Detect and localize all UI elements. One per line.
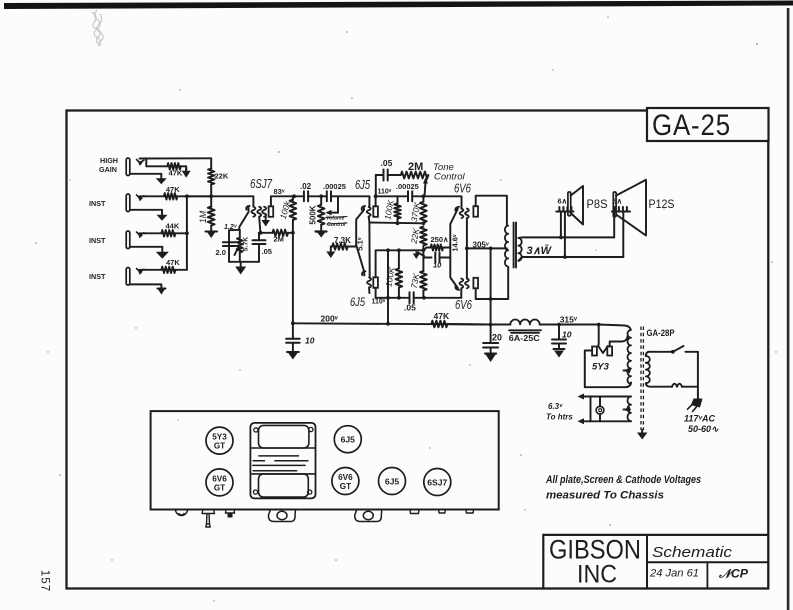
transformer OT core (514, 223, 516, 268)
chassis outline (151, 411, 499, 509)
label 6ohm P8S (558, 197, 568, 206)
svg-text:110ᵛ: 110ᵛ (372, 299, 386, 306)
pot 500K wiper (326, 196, 339, 215)
tube 5Y3 filament (598, 344, 608, 353)
svg-text:.05: .05 (262, 247, 272, 256)
pot 5.7K (237, 238, 243, 253)
tube 6V6a plate lead (476, 196, 507, 226)
label 44K J3 (166, 222, 180, 231)
page number 157 (39, 570, 51, 592)
arrow filament center tap (624, 407, 631, 413)
tube 6J5b plate (373, 277, 378, 288)
svg-text:47K: 47K (434, 311, 450, 321)
wire J1 sleeve (130, 173, 161, 175)
wire cap00025 lead (321, 195, 327, 197)
plate line upper (376, 195, 408, 197)
jack J3 (126, 231, 130, 249)
jack J4 tip contact (137, 269, 144, 275)
junction bus left (291, 321, 295, 325)
tube 6V6a screen lead (466, 218, 468, 248)
svg-text:.02: .02 (300, 182, 312, 191)
junction volume top (319, 194, 323, 198)
label INST 3 (89, 272, 106, 281)
choke 6A-25C (491, 319, 599, 324)
tube 6J5b plate lead top (376, 250, 424, 277)
label INST 1 (89, 199, 106, 208)
svg-text:14.6ᵛ: 14.6ᵛ (451, 234, 460, 252)
tube 6SJ7 cathode (239, 206, 249, 230)
label 200v (321, 314, 339, 324)
junction HV bus (489, 323, 493, 327)
label 3 ohm W (527, 245, 553, 257)
wire J1 tip to top rail (140, 157, 212, 159)
label 2.0 (216, 248, 226, 257)
tube 6J5a grid lead lower (368, 217, 371, 223)
wire J3 tip (140, 232, 162, 234)
tube 6V6a screen squiggle (465, 209, 469, 219)
wire J4 tip (140, 269, 162, 271)
label 6A-25C (509, 333, 540, 343)
tube 5Y3 plate left (592, 347, 597, 356)
junction plate crossing (489, 297, 493, 301)
transformer PT core (641, 327, 643, 431)
chassis clip 2 (439, 510, 446, 514)
wire node to 6V6b grid (460, 288, 462, 298)
wire plate node up (375, 175, 377, 196)
capacitor .00025 second (408, 191, 462, 201)
chassis transformer outline (250, 423, 315, 499)
label 2M screen (274, 235, 284, 244)
wire J1 47K branch (146, 160, 167, 167)
label Volume Control (326, 216, 347, 229)
tube 6SJ7 plate lead (271, 196, 294, 206)
svg-text:3∧W̄: 3∧W̄ (527, 245, 553, 257)
ground cathode network (235, 262, 246, 275)
svg-text:6V6: 6V6 (454, 182, 471, 196)
ground 10 first filter (287, 352, 299, 360)
label 100K first stage (278, 199, 293, 220)
capacitor 10 psu (552, 325, 566, 350)
wire screen dropper (490, 248, 492, 324)
svg-text:INC: INC (577, 561, 617, 589)
label 305v (473, 240, 489, 249)
svg-text:6J5: 6J5 (385, 477, 400, 487)
pot 5.7K wiper (235, 246, 240, 256)
arrow HV center tap (624, 368, 631, 374)
svg-text:6J5: 6J5 (350, 295, 365, 309)
wire 7.3K to cathode (348, 246, 357, 248)
chassis transformer laminations (253, 456, 308, 471)
svg-text:P12S: P12S (649, 199, 675, 211)
label 10 first filter (305, 336, 315, 346)
svg-text:6.3ᵛ: 6.3ᵛ (548, 402, 563, 411)
label 6.3v (548, 402, 563, 411)
svg-text:Schematic: Schematic (652, 545, 733, 561)
ground J2 (157, 210, 168, 221)
jack J2 tip contact (137, 195, 144, 201)
pilot lamp (596, 397, 604, 422)
ground 20 filter (485, 354, 496, 363)
transformer PT filament winding (628, 397, 631, 422)
label 6V6 lower (455, 298, 472, 312)
svg-text:44K: 44K (166, 222, 180, 231)
svg-text:6J5: 6J5 (341, 435, 356, 445)
resistor 47K J2 (164, 193, 178, 199)
pot 5.7K branch top (239, 230, 241, 238)
tube 6V6b cathode (450, 248, 459, 290)
jack J1 high gain (126, 158, 130, 176)
ground 7.3K (326, 247, 335, 259)
svg-text:47K: 47K (166, 258, 180, 267)
wire 315v to rectifier (597, 323, 601, 344)
capacitor 2.0 (223, 242, 236, 246)
label HIGH GAIN (99, 156, 118, 174)
wire HV winding top lead (599, 325, 631, 331)
tube 6J5a plate (373, 206, 378, 217)
junction divider node (422, 248, 426, 252)
switch power (646, 346, 698, 356)
transformer PT primary bottom lead (646, 383, 672, 387)
wire J2 tip (140, 195, 164, 197)
resistor 22K divider (420, 227, 427, 251)
label .05 tone (381, 158, 393, 168)
ground J1 (156, 174, 167, 185)
wire AC hot (697, 352, 699, 400)
svg-text:6A-25C: 6A-25C (509, 333, 540, 343)
svg-text:HIGH: HIGH (100, 156, 118, 165)
label 1M (198, 210, 208, 223)
Schematic text (652, 545, 733, 561)
resistor 250ohm (423, 245, 450, 251)
svg-text:157: 157 (39, 570, 51, 592)
svg-text:22K: 22K (215, 172, 229, 181)
chassis foot left (268, 510, 295, 522)
wire 100K bottom (292, 220, 294, 233)
label 100K lower inverter (383, 266, 396, 288)
svg-text:305ᵛ: 305ᵛ (473, 240, 489, 249)
capacitor .05 tone (376, 170, 401, 181)
label 14.6V (451, 234, 460, 252)
tube 6SJ7 plate (269, 206, 274, 217)
junction 370K bottom (422, 221, 426, 225)
resistor 370K (420, 196, 427, 223)
svg-text:83ᵛ: 83ᵛ (274, 187, 285, 196)
label .02 (300, 182, 312, 191)
svg-text:2M: 2M (408, 161, 423, 173)
wire 47K to ground (181, 166, 186, 171)
junction grid-feed lower (386, 296, 390, 300)
jack J1 tip contact (137, 160, 144, 166)
svg-text:GAIN: GAIN (99, 165, 117, 174)
label 22K (215, 172, 229, 181)
note line 1 (545, 474, 701, 486)
label 6SJ7 (250, 176, 273, 191)
ground 500K (316, 225, 327, 238)
pot 2M tone (401, 172, 429, 179)
tube 6J5a cathode (356, 206, 365, 245)
speaker P12S horn (616, 180, 646, 236)
svg-text:10: 10 (433, 261, 442, 270)
jack J2 (126, 194, 130, 212)
svg-text:6J5: 6J5 (355, 178, 370, 192)
chassis clip 1 (410, 510, 419, 514)
chassis foot right (355, 510, 382, 522)
top scan bar (4, 1, 793, 10)
wire 1M top (210, 196, 212, 207)
svg-text:110ᵛ: 110ᵛ (378, 189, 392, 196)
label 47K high-gain (169, 169, 183, 178)
svg-text:24 Jan 61: 24 Jan 61 (649, 568, 699, 580)
wire input node to grid (187, 195, 254, 197)
label 10 psu (562, 330, 572, 340)
wire 22K top (210, 158, 212, 169)
junction J2 bus (185, 194, 189, 198)
tube 6V6b grid squiggle (459, 279, 463, 289)
svg-text:All plate,Screen & Cathode Vol: All plate,Screen & Cathode Voltages (545, 474, 701, 486)
tube 5Y3 plate right (607, 347, 612, 356)
svg-text:6V6: 6V6 (212, 474, 227, 483)
svg-text:GA-28P: GA-28P (647, 328, 675, 338)
right page-edge line (787, 8, 790, 610)
label .05 coupling (404, 303, 416, 313)
tube 6SJ7 grid squiggle 2 (257, 207, 261, 217)
label 5.1v (356, 237, 365, 250)
wire P8S leads (559, 212, 567, 259)
svg-text:.05: .05 (381, 158, 393, 168)
capacitor .00025 first (327, 191, 370, 201)
tube 6SJ7 screen ground (261, 217, 270, 227)
plug 117V AC (688, 399, 703, 412)
label .05 cathode (262, 247, 272, 256)
fuse bump (672, 384, 682, 387)
wire 5Y3 left plate loop (585, 351, 631, 388)
wire AC neutral (682, 386, 698, 388)
svg-text:117ᵛAC: 117ᵛAC (684, 414, 715, 424)
wire screen node down to HV bus (292, 233, 294, 323)
pot 2M tone wiper (423, 175, 428, 196)
label 50-60 (688, 424, 719, 434)
label 117v AC (684, 414, 715, 424)
tube 6J5b grid lead lower (368, 288, 370, 294)
svg-text:.00025: .00025 (396, 182, 419, 191)
tube 6J5b grid lead upper (368, 223, 370, 278)
resistor 100K lower inverter (396, 250, 403, 297)
tube 6SJ7 grid lead (252, 196, 254, 206)
svg-text:5.7K: 5.7K (243, 237, 250, 251)
border frame (67, 111, 769, 589)
wire 44K to bus (175, 232, 187, 234)
svg-text:To htrs: To htrs (546, 413, 573, 422)
svg-text:5Y3: 5Y3 (212, 433, 227, 442)
GA-25 text (652, 109, 731, 142)
svg-text:10: 10 (305, 336, 315, 346)
heater circuit left leg (590, 397, 592, 422)
svg-text:INST: INST (89, 236, 106, 245)
label GA-28P (647, 328, 675, 338)
note line 2 (546, 490, 664, 502)
svg-text:.00025: .00025 (323, 182, 346, 191)
tube 6SJ7 grid squiggle 3 (262, 207, 266, 217)
label 250ohm (431, 235, 450, 244)
junction screen node (291, 231, 295, 235)
wire 100K top (292, 196, 294, 200)
tube socket 6V6GT right (332, 468, 359, 495)
label 1.2v (224, 224, 238, 231)
svg-text:315ᵛ: 315ᵛ (560, 315, 578, 325)
label .00025 second (396, 182, 419, 191)
svg-text:GT: GT (214, 442, 225, 451)
label 6J5 lower (350, 295, 365, 309)
label INST 2 (89, 236, 106, 245)
label 47K bus (434, 311, 450, 321)
svg-text:47K: 47K (169, 169, 183, 178)
tube 6V6a grid squiggle (460, 209, 464, 219)
junction J3 bus (185, 231, 189, 235)
tube 6J5a plate lead (375, 196, 377, 206)
ground J3 (156, 247, 169, 259)
chassis grommet 1 (176, 510, 188, 516)
label 500K (308, 205, 317, 224)
label 47K J2 (166, 185, 180, 194)
chassis transformer bell top (259, 425, 309, 448)
wire shared cathode diagonal (356, 245, 364, 272)
input bus vertical (186, 196, 188, 269)
wire OT secondary top (518, 236, 614, 239)
transformer PT HV winding (628, 330, 631, 384)
tube 6SJ7 suppressor lead (259, 217, 260, 233)
heater circuit bottom (582, 420, 632, 422)
svg-text:6V6: 6V6 (338, 473, 353, 482)
wire 22K bottom to node (210, 185, 212, 197)
wire 47K J2 to bus (177, 195, 211, 197)
junction 73K bottom (422, 296, 426, 300)
initials NCP (718, 567, 749, 581)
wire OT secondary bottom (518, 257, 623, 261)
capacitor 20 filter (483, 325, 498, 354)
resistor 44K J3 (161, 230, 175, 236)
tube socket 6J5 top (334, 426, 361, 453)
wire J2 sleeve (130, 209, 162, 211)
label P8S (587, 199, 608, 211)
tube 6V6b screen lead (466, 248, 468, 278)
svg-text:6V6: 6V6 (455, 298, 472, 312)
tube 6J5b grid squiggle (367, 278, 371, 288)
svg-text:47K: 47K (166, 185, 180, 194)
resistor 73K (420, 250, 427, 297)
arrow heater top (578, 394, 585, 400)
label 110v lower (372, 299, 386, 306)
svg-text:2.0: 2.0 (216, 248, 226, 257)
label 10 bypass (433, 261, 442, 270)
label 83v (274, 187, 285, 196)
capacitor .02 (294, 191, 321, 201)
transformer OT primary (505, 226, 508, 267)
pot 5.7K bottom (239, 252, 241, 261)
wire 2M to dropping node (288, 232, 293, 234)
svg-text:1.2ᵛ: 1.2ᵛ (224, 224, 238, 231)
label P12S (649, 199, 675, 211)
tube 6V6a cathode (450, 207, 459, 248)
label 6J5 upper (355, 178, 370, 192)
junction inverter bus (386, 322, 390, 326)
tube socket 5Y3GT (206, 427, 233, 454)
tube 6V6a plate (473, 206, 478, 217)
pot 500K volume top (320, 196, 322, 205)
speaker P12S driver (613, 192, 616, 217)
GA-25 title box (647, 108, 769, 141)
tube 6J5b plate lead bottom (375, 288, 377, 298)
pot 500K volume (318, 205, 325, 225)
label Tone Control (433, 162, 466, 183)
tube 6J5b cathode hook (362, 271, 365, 275)
tube 6SJ7 grid squiggle 1 (251, 207, 255, 217)
title block outline (543, 535, 768, 589)
svg-text:6SJ7: 6SJ7 (427, 478, 447, 488)
resistor 100K upper inverter (394, 196, 401, 223)
arrow heater bottom (578, 418, 585, 424)
grid bus upper 6J5 (369, 222, 423, 225)
wire inverter to bus (387, 298, 389, 324)
resistor 47K high-gain (167, 163, 181, 169)
svg-text:6∧: 6∧ (558, 197, 568, 206)
wire J4 sleeve (130, 284, 161, 288)
label 370K (409, 201, 422, 223)
label 110v upper (378, 189, 392, 196)
svg-text:200ᵛ: 200ᵛ (321, 314, 339, 324)
svg-text:1M: 1M (198, 210, 208, 223)
label 5.7K (243, 237, 250, 251)
wire 47K J4 to bus (175, 269, 187, 271)
svg-text:GA-25: GA-25 (652, 109, 731, 142)
jack J3 tip contact (137, 232, 144, 238)
svg-text:.05: .05 (404, 303, 416, 313)
speaker P8S driver (568, 192, 571, 216)
junction input node (209, 194, 213, 198)
tube 6V6b plate (473, 278, 478, 289)
ground 10 bypass (413, 253, 424, 260)
chassis fuse post (226, 510, 235, 518)
resistor 1M (208, 207, 215, 226)
label 6ohm P12S (613, 197, 623, 206)
label 2M tone (408, 161, 423, 173)
label To htrs (546, 413, 573, 422)
speaker P12S terminals (612, 207, 630, 212)
svg-text:500K: 500K (308, 205, 317, 224)
label 5Y3 (592, 362, 610, 373)
tube socket 6J5 bottom (379, 468, 406, 495)
ground PT core (637, 430, 648, 440)
resistor 2M screen (273, 230, 289, 236)
svg-text:20: 20 (492, 333, 502, 343)
junction plate node (292, 194, 296, 198)
label 22K divider (409, 227, 422, 245)
transformer OT secondary (518, 238, 521, 261)
transformer PT primary winding (646, 356, 650, 383)
svg-text:GT: GT (214, 483, 225, 492)
wire P12S leads (614, 212, 623, 258)
chassis clip 3 (466, 510, 474, 514)
svg-text:50-60∿: 50-60∿ (688, 424, 719, 434)
tube socket 6V6GT left (206, 469, 233, 496)
chassis switch toggle (202, 510, 215, 528)
junction 100K lower bottom (397, 248, 401, 299)
junction 315v (557, 323, 561, 327)
cathode network bottom wire (229, 261, 259, 263)
resistor 47K bus (431, 321, 447, 328)
label 100K upper inverter (382, 199, 395, 221)
wire J3 sleeve (130, 246, 162, 248)
svg-text:𝒩CP: 𝒩CP (718, 567, 749, 581)
